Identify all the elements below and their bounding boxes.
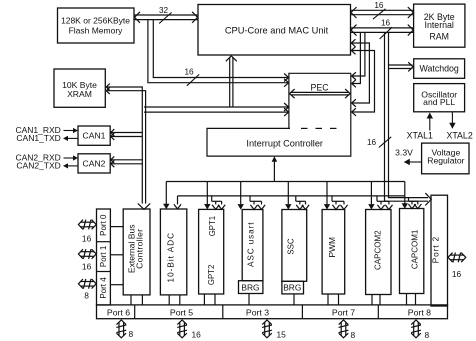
svg-text:32: 32 <box>159 6 169 15</box>
port2 pin arrow <box>448 253 466 263</box>
label Port 5 <box>170 308 193 318</box>
peripheral bus band <box>166 182 404 196</box>
svg-text:Port 0: Port 0 <box>99 214 108 236</box>
svg-text:CAN1_TXD: CAN1_TXD <box>16 133 60 143</box>
label XTAL2 <box>446 130 472 140</box>
svg-text:16: 16 <box>82 261 92 271</box>
SSC port link <box>293 294 295 305</box>
CAPCOM2 staple <box>368 196 392 210</box>
svg-text:CAPCOM2: CAPCOM2 <box>373 230 382 270</box>
CAN2 txd arrow <box>63 163 78 168</box>
svg-text:and PLL: and PLL <box>423 97 455 107</box>
svg-text:Port 8: Port 8 <box>408 308 431 318</box>
svg-text:128K or 256KByte: 128K or 256KByte <box>61 16 130 26</box>
svg-text:RAM: RAM <box>429 32 449 42</box>
label 3.3V <box>395 147 413 157</box>
CAN2 rxd arrow <box>64 155 79 160</box>
port7 pin arrow <box>339 320 349 338</box>
PEC right bus <box>352 32 365 87</box>
label Port 3 <box>246 308 269 318</box>
CAPCOM1 box <box>400 209 424 294</box>
CPU core box <box>198 5 351 56</box>
svg-text:Controller: Controller <box>135 229 145 269</box>
label 8 port6 <box>129 329 134 339</box>
label 16 pec bus <box>184 68 199 86</box>
svg-text:10-Bit ADC: 10-Bit ADC <box>167 232 176 283</box>
port 0/1/4 column <box>97 209 111 305</box>
svg-text:GPT1: GPT1 <box>208 216 217 236</box>
watchdog box <box>414 59 465 79</box>
bus to PEC upper <box>148 20 289 87</box>
port5 pin arrow <box>177 320 187 338</box>
svg-text:CPU-Core and MAC Unit: CPU-Core and MAC Unit <box>225 25 329 35</box>
CPU-interrupt side bus <box>351 39 374 116</box>
CPU-RAM bus 2 <box>351 25 413 36</box>
port1 pin arrow <box>78 249 96 259</box>
CAN1 txd arrow <box>63 136 78 141</box>
port2 box <box>431 195 448 306</box>
label 8 port4 <box>84 291 89 301</box>
ADC data arrow <box>174 196 181 209</box>
svg-text:16: 16 <box>184 68 194 77</box>
svg-text:Port 6: Port 6 <box>107 308 130 318</box>
bus to PEC lower <box>144 103 289 116</box>
CAPCOM1 staple <box>402 196 422 209</box>
label CAN1_RXD <box>15 125 60 135</box>
label 16 right bus <box>367 137 391 148</box>
svg-text:CAN2: CAN2 <box>83 159 106 169</box>
port6 pin arrow <box>116 320 126 338</box>
port0 pin arrow <box>78 220 96 230</box>
EBC box <box>123 209 150 295</box>
GPT box <box>199 209 224 294</box>
label 8 port8 <box>425 330 430 340</box>
label Port 0 <box>99 214 108 236</box>
EBC port links <box>131 295 142 305</box>
CPU-RAM bus 1 <box>351 7 413 18</box>
svg-text:BRG: BRG <box>283 283 301 293</box>
CAPCOM2 port links <box>372 295 380 305</box>
SSC box <box>282 210 307 282</box>
svg-text:Port 7: Port 7 <box>332 308 355 318</box>
SSC staple <box>285 196 309 210</box>
ADC port links <box>169 295 180 305</box>
ADC box <box>160 209 186 295</box>
ASC BRG box <box>239 281 263 294</box>
svg-text:8: 8 <box>351 330 356 340</box>
label 16 port0 <box>82 233 92 243</box>
svg-text:Port 2: Port 2 <box>432 236 441 263</box>
svg-text:PWM: PWM <box>327 237 337 257</box>
svg-text:Port 4: Port 4 <box>99 277 108 299</box>
CAN1 rxd arrow <box>64 128 79 133</box>
ASC port link <box>248 294 250 305</box>
XTAL2 arrow <box>449 112 455 129</box>
label Port 6 <box>107 308 130 318</box>
arrow to CPU bottom <box>226 56 237 107</box>
label 15 port3 <box>277 330 287 340</box>
svg-text:Regulator: Regulator <box>427 156 464 166</box>
svg-text:16: 16 <box>374 1 384 10</box>
svg-text:16: 16 <box>192 330 202 340</box>
svg-text:Port 5: Port 5 <box>170 308 193 318</box>
svg-text:Interrupt Controller: Interrupt Controller <box>246 139 323 149</box>
ASC box <box>242 210 263 281</box>
bottom port strip <box>97 305 448 319</box>
svg-text:Port 1: Port 1 <box>99 245 108 267</box>
label 8 port7 <box>351 330 356 340</box>
svg-text:16: 16 <box>381 19 391 28</box>
PEC and interrupt controller box <box>207 73 351 156</box>
port8 pin arrow <box>411 320 421 338</box>
ADC interrupt arrow <box>163 182 169 210</box>
svg-text:CAPCOM1: CAPCOM1 <box>411 229 420 269</box>
CAPCOM1 port links <box>407 294 416 305</box>
GPT staple <box>204 196 225 210</box>
oscillator box <box>414 84 465 112</box>
label CAN2_TXD <box>16 160 60 170</box>
svg-text:16: 16 <box>367 138 377 147</box>
label 16 bus1 <box>373 1 386 19</box>
XRAM box <box>54 69 105 107</box>
svg-text:8: 8 <box>129 329 134 339</box>
PWM staple <box>324 196 348 210</box>
column-EBC links <box>110 227 123 285</box>
svg-text:8: 8 <box>84 291 89 301</box>
CAN1 link <box>111 129 143 140</box>
svg-text:BRG: BRG <box>241 282 259 292</box>
voltage regulator box <box>422 143 469 174</box>
label 16 port2 <box>452 269 462 279</box>
svg-text:Internal: Internal <box>425 20 454 30</box>
svg-text:XRAM: XRAM <box>67 89 92 99</box>
XTAL1 arrow <box>427 113 433 131</box>
label CAN1_TXD <box>16 133 60 143</box>
svg-text:GPT2: GPT2 <box>207 265 216 285</box>
label Port 1 <box>99 245 108 267</box>
PEC transfer arrow <box>290 89 351 98</box>
ASC staple <box>238 196 266 210</box>
svg-text:Port 3: Port 3 <box>246 308 269 318</box>
arrow into EBC <box>138 203 150 209</box>
label Port 7 <box>332 308 355 318</box>
CAN2 link <box>111 156 143 167</box>
svg-text:16: 16 <box>82 233 92 243</box>
port4 pin arrow <box>78 279 96 289</box>
watchdog link <box>389 62 414 71</box>
svg-text:SSC: SSC <box>287 238 296 255</box>
regulator 3.3V arrow <box>404 159 422 165</box>
svg-text:8: 8 <box>425 330 430 340</box>
svg-text:XTAL1: XTAL1 <box>407 130 433 140</box>
PWM box <box>322 210 345 295</box>
PWM port links <box>328 294 339 305</box>
svg-text:CAN1: CAN1 <box>83 131 106 141</box>
svg-text:CAN2_TXD: CAN2_TXD <box>16 160 60 170</box>
XRAM bus <box>106 84 145 204</box>
svg-text:16: 16 <box>452 269 462 279</box>
label 16 bus2 <box>380 19 393 39</box>
label 16 port1 <box>82 261 92 271</box>
label 16 port5 <box>192 330 202 340</box>
svg-text:XTAL2: XTAL2 <box>446 130 472 140</box>
CAN2 box <box>78 154 110 173</box>
label Port 4 <box>99 277 108 299</box>
CAN1 box <box>78 126 110 145</box>
flash-CPU bus <box>135 12 198 23</box>
internal RAM box <box>414 4 465 47</box>
svg-text:ASC usart: ASC usart <box>246 222 255 267</box>
svg-text:Watchdog: Watchdog <box>420 63 459 73</box>
CAPCOM2 box <box>366 210 391 295</box>
port3 pin arrow <box>262 320 272 338</box>
SSC BRG box <box>282 281 304 294</box>
label Port 8 <box>408 308 431 318</box>
svg-text:Flash Memory: Flash Memory <box>69 25 124 35</box>
flash memory box <box>58 8 135 43</box>
svg-text:PEC: PEC <box>310 83 329 93</box>
right vertical bus to port2 <box>385 32 432 205</box>
GPT port links <box>204 294 215 305</box>
label XTAL1 <box>407 130 433 140</box>
interrupt bus link <box>272 156 278 181</box>
label CAN2_RXD <box>15 152 60 162</box>
svg-text:15: 15 <box>277 330 287 340</box>
svg-text:3.3V: 3.3V <box>395 147 413 157</box>
label 32 <box>159 6 172 23</box>
